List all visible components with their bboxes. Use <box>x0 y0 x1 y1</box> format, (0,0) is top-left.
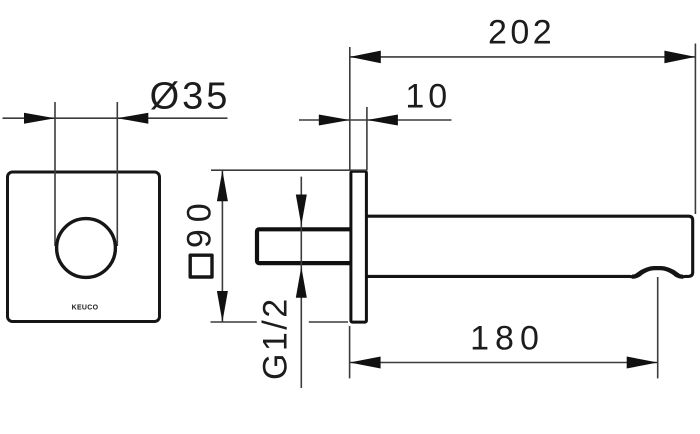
svg-text:180: 180 <box>470 320 545 358</box>
svg-text:G1/2: G1/2 <box>257 296 295 380</box>
svg-text:202: 202 <box>488 14 555 52</box>
svg-text:10: 10 <box>405 78 451 116</box>
svg-text:KEUCO: KEUCO <box>72 304 99 311</box>
svg-text:Ø35: Ø35 <box>150 76 231 118</box>
svg-text:90: 90 <box>181 196 219 248</box>
